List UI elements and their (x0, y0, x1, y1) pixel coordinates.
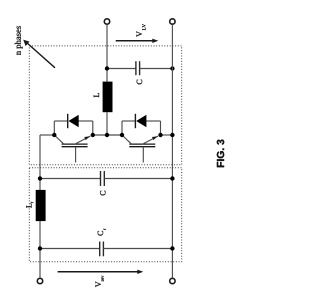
diode D2 branch wires (122, 121, 161, 135)
wire filter cap C right (104, 178, 172, 180)
wire Cf right (104, 248, 173, 250)
inductor Lf (36, 190, 46, 221)
terminal bottom-right (170, 278, 175, 283)
IGBT Q2 collector lead (122, 135, 132, 144)
node Q2 collector (120, 133, 124, 137)
diode D2 triangle (136, 115, 146, 128)
V_LV label (137, 24, 146, 37)
inductor Lf label (26, 202, 33, 208)
node filter right (170, 176, 174, 180)
capacitor Cf label (98, 229, 106, 236)
inductor L (103, 82, 113, 113)
IGBT Q1 gate lead (75, 147, 77, 163)
wire center rail top (106, 24, 108, 81)
IGBT Q1 collector lead (54, 135, 64, 144)
wire top cap right (140, 68, 173, 70)
converter dashed box (29, 46, 181, 165)
n phases arrow (23, 40, 55, 68)
IGBT Q1 bars (62, 144, 88, 147)
wire Q1 to Q2 (93, 134, 122, 136)
V_LV arrow (116, 39, 159, 43)
node center rail (105, 133, 109, 137)
terminal bottom-left (37, 278, 42, 283)
V_INV arrow (58, 270, 144, 274)
node Q2 emitter (158, 133, 162, 137)
capacitor C top label (137, 80, 142, 85)
node filter left (38, 176, 42, 180)
capacitor C top (136, 61, 140, 75)
IGBT Q1 with diode D1 (52, 114, 95, 163)
wire main horizontal to Q1 (40, 134, 54, 136)
terminal top-right (170, 19, 175, 24)
diode D1 triangle (69, 115, 79, 128)
filter dashed box (29, 168, 181, 262)
wire Cf left (40, 248, 100, 250)
IGBT Q1 emitter lead with arrow (75, 136, 91, 144)
wire left rail upper (39, 135, 41, 190)
terminal top-left (104, 19, 109, 24)
capacitor Cf (100, 242, 104, 257)
node right rail at switch wire (170, 133, 174, 137)
diode D1 branch wires (54, 121, 93, 135)
diode D1 cathode bar (67, 114, 69, 128)
wire right rail (171, 24, 173, 278)
IGBT Q2 with diode D2 (120, 114, 163, 163)
node Q1 emitter (91, 133, 95, 137)
node top cap left (105, 66, 109, 70)
V_INV label (96, 276, 104, 288)
capacitor C filter label (100, 191, 105, 196)
wire left rail lower (39, 221, 41, 278)
wire center rail below L (106, 112, 108, 135)
node Q1 collector (52, 133, 56, 137)
inductor L label (94, 93, 99, 97)
IGBT Q2 bars (129, 144, 155, 147)
IGBT Q2 gate lead (142, 147, 144, 163)
diode D2 cathode bar (134, 114, 136, 128)
wire Q2 to right rail (161, 134, 173, 136)
wire filter cap C left (40, 178, 100, 180)
wire top cap left (107, 68, 136, 70)
n phases label (15, 26, 23, 55)
node Cf right (170, 246, 174, 250)
FIG. 3 caption (217, 140, 224, 168)
IGBT Q2 emitter lead with arrow (143, 136, 159, 144)
node top cap right (170, 66, 174, 70)
node Cf left (38, 246, 42, 250)
capacitor C filter (101, 171, 105, 186)
